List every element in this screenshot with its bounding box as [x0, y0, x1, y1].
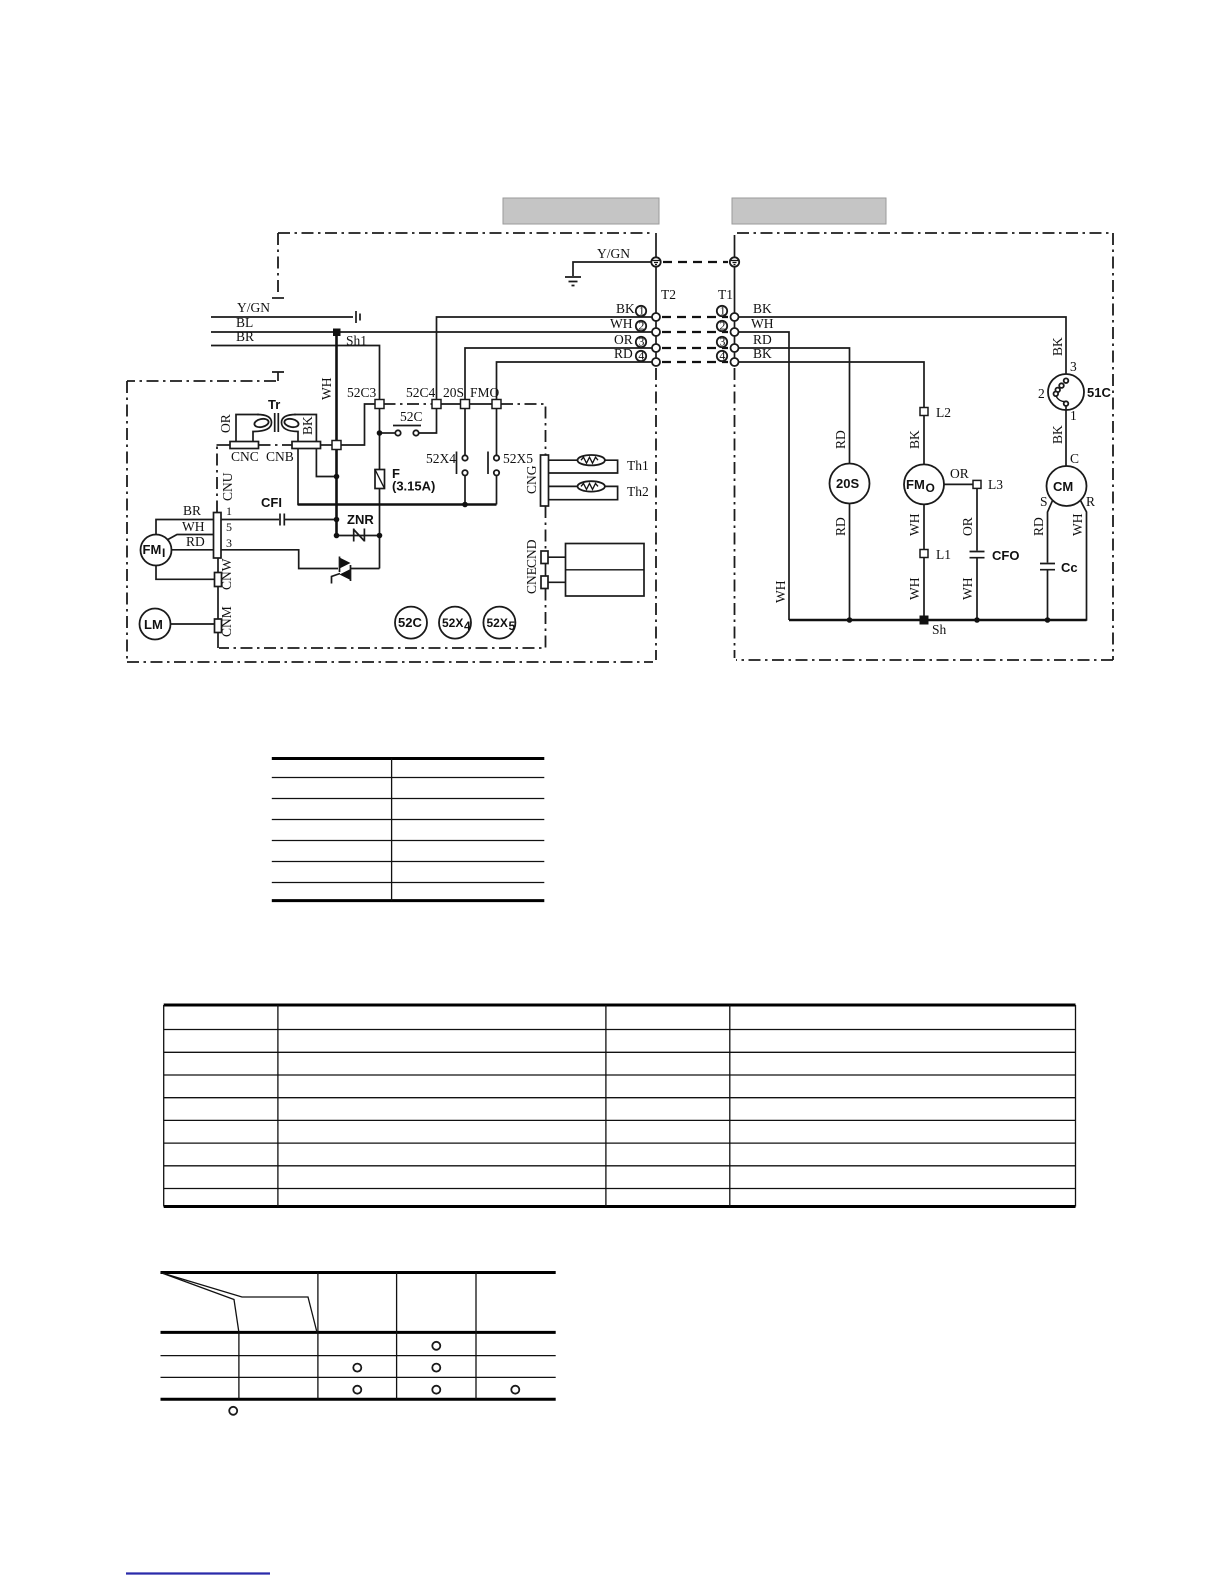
svg-text:RD: RD — [833, 517, 848, 536]
svg-text:WH: WH — [751, 316, 774, 331]
svg-text:C: C — [1070, 451, 1079, 466]
svg-text:4: 4 — [638, 349, 644, 363]
pin L3 — [973, 480, 981, 488]
wire 52C3 pin down through fuse — [379, 409, 381, 569]
svg-text:52X: 52X — [442, 616, 463, 630]
svg-text:52X4: 52X4 — [426, 451, 456, 466]
wire FMo down to L1 — [923, 504, 925, 549]
wire BL feed — [211, 331, 652, 333]
dashed interconnect wires 1-4 — [662, 317, 728, 362]
wire BK no.1 outdoor to 51C — [739, 317, 1066, 374]
svg-text:4: 4 — [719, 349, 725, 363]
pin FMO — [492, 400, 501, 409]
svg-text:ZNR: ZNR — [347, 512, 374, 527]
matrix circle row2 col3 — [432, 1364, 440, 1372]
svg-text:BK: BK — [616, 301, 635, 316]
svg-text:WH: WH — [773, 580, 788, 603]
wire FMo to L3 — [944, 483, 973, 485]
compressor motor CM — [1047, 466, 1087, 506]
svg-text:Tr: Tr — [268, 397, 280, 412]
pin L1 — [920, 550, 928, 558]
wire FMi RD lead — [171, 549, 214, 551]
ground symbol (earth) — [565, 277, 581, 286]
svg-text:2: 2 — [638, 319, 644, 333]
wire CFO to bus — [976, 558, 978, 620]
thermistor Th2 — [549, 481, 618, 500]
svg-text:2: 2 — [719, 319, 725, 333]
svg-text:BK: BK — [907, 430, 922, 449]
label WH 2 (T2 side) — [610, 316, 646, 333]
wire LM to CNM — [171, 623, 215, 625]
svg-text:Sh: Sh — [932, 622, 947, 637]
connector CNC — [230, 442, 259, 449]
terminal block T1 circles — [731, 313, 739, 366]
svg-text:Y/GN: Y/GN — [237, 300, 270, 315]
svg-text:I: I — [162, 546, 165, 560]
footer blue rule — [126, 1572, 270, 1574]
svg-text:LM: LM — [144, 617, 163, 632]
label 1 BK (T1 side) — [717, 301, 772, 318]
wire pin3 RD to triac — [221, 550, 339, 569]
switch contact 52C — [382, 409, 437, 436]
ground terminal on T2 — [651, 257, 660, 266]
svg-text:RD: RD — [1031, 517, 1046, 536]
junction dot CFO bus — [974, 617, 980, 623]
controller box — [566, 544, 645, 597]
pin 20S — [461, 400, 470, 409]
svg-text:Cc: Cc — [1061, 560, 1078, 575]
svg-text:CNW: CNW — [219, 558, 234, 590]
switch 52X5 — [488, 409, 499, 505]
wire FMi to CNW — [156, 566, 215, 580]
svg-text:51C: 51C — [1087, 385, 1111, 400]
wire L1 to Sh — [923, 558, 925, 621]
svg-text:T2: T2 — [661, 287, 676, 302]
wire 51C to CM — [1065, 406, 1067, 467]
wire RD no.4 to FMO pin — [497, 362, 653, 400]
pin L2 — [920, 408, 928, 416]
outdoor unit name plate (redacted gray box) — [732, 198, 886, 224]
svg-text:Th2: Th2 — [627, 484, 649, 499]
svg-text:52C3: 52C3 — [347, 385, 377, 400]
svg-text:CNM: CNM — [219, 606, 234, 637]
wire WH no.2 outdoor to bus — [739, 332, 789, 620]
svg-text:3: 3 — [226, 536, 232, 550]
label 3 RD (T1 side) — [717, 332, 772, 349]
junction dot ZNR right — [377, 533, 383, 539]
motor LM — [140, 609, 171, 640]
wire WH from Sh1 down — [335, 336, 338, 441]
capacitor Cc — [1040, 564, 1055, 570]
svg-text:WH: WH — [182, 519, 205, 534]
junction Sh1 (black square) — [333, 329, 341, 337]
svg-text:CNG: CNG — [524, 465, 539, 494]
matrix circle row2 col2 — [353, 1364, 361, 1372]
svg-text:CNB: CNB — [266, 449, 294, 464]
svg-text:BK: BK — [1050, 337, 1065, 356]
wire Y/GN feed (indoor) — [211, 316, 353, 318]
svg-text:1: 1 — [720, 304, 726, 318]
capacitor CFI — [221, 514, 337, 526]
svg-text:3: 3 — [719, 335, 725, 349]
wire CND to controller — [548, 556, 566, 558]
legend circle below table — [229, 1407, 237, 1415]
connector CND — [541, 551, 548, 564]
svg-text:3: 3 — [638, 335, 644, 349]
wire pcb bus — [298, 503, 497, 506]
svg-text:T1: T1 — [718, 287, 733, 302]
junction dot 52X4 bus — [462, 502, 468, 508]
indoor unit name plate (redacted gray box) — [503, 198, 659, 224]
svg-text:FM: FM — [906, 477, 925, 492]
connector CNM — [215, 619, 222, 633]
svg-text:RD: RD — [186, 534, 205, 549]
svg-text:OR: OR — [218, 414, 233, 433]
svg-text:BL: BL — [236, 315, 253, 330]
svg-text:52C: 52C — [398, 615, 422, 630]
wire CM S-lead to Cc — [1048, 500, 1053, 562]
svg-text:5: 5 — [226, 520, 232, 534]
wire CM R-lead to bus — [1080, 500, 1086, 621]
table 1 (symbol legend, blank) — [272, 759, 545, 901]
svg-text:2: 2 — [1038, 386, 1045, 401]
label BK 1 (T2 side) — [616, 301, 646, 318]
pin square on WH line — [332, 441, 341, 450]
label 2 WH (T1 side) — [717, 316, 774, 333]
matrix circle row3 col4 — [511, 1386, 519, 1394]
svg-text:3: 3 — [1070, 359, 1077, 374]
wire BR feed to 52C3 — [211, 346, 380, 401]
wire 20S to bus — [849, 504, 851, 621]
svg-text:4: 4 — [464, 619, 471, 633]
wire CNB right pin to WH line — [316, 449, 336, 477]
svg-text:OR: OR — [614, 332, 633, 347]
svg-text:CNC: CNC — [231, 449, 259, 464]
svg-text:BK: BK — [300, 416, 315, 435]
wire WH line lower segment — [335, 450, 338, 536]
wire OR no.3 to 20S pin — [465, 348, 652, 400]
indoor unit boundary (dash-dot) — [127, 233, 656, 662]
svg-text:52X: 52X — [487, 616, 508, 630]
overload relay 51C — [1048, 374, 1084, 410]
svg-text:BK: BK — [1050, 425, 1065, 444]
svg-text:RD: RD — [753, 332, 772, 347]
svg-text:WH: WH — [319, 377, 334, 400]
fan motor FMo — [904, 464, 944, 504]
junction dot Cc bus — [1045, 617, 1051, 623]
solenoid 20S — [830, 464, 870, 504]
thermistor Th1 — [549, 455, 618, 473]
transformer Tr — [236, 397, 316, 442]
matrix circle row3 col2 — [353, 1386, 361, 1394]
junction Sh (black square) — [920, 616, 929, 625]
svg-text:WH: WH — [1070, 513, 1085, 536]
wire CNE to controller — [548, 581, 566, 583]
connector CNE — [541, 576, 548, 589]
wire: T1 earth riser — [734, 235, 736, 313]
wire: T2 earth riser — [655, 233, 657, 313]
junction dot ZNR left — [334, 533, 340, 539]
relay coil 52C — [395, 607, 427, 639]
svg-text:WH: WH — [610, 316, 633, 331]
svg-text:20S: 20S — [443, 385, 464, 400]
label OR 3 (T2 side) — [614, 332, 646, 349]
svg-text:OR: OR — [950, 466, 969, 481]
connector CNB — [292, 442, 321, 449]
svg-text:Th1: Th1 — [627, 458, 649, 473]
wire CNB left pin down to bus — [298, 449, 337, 505]
svg-text:1: 1 — [226, 504, 232, 518]
connector CNW — [215, 573, 222, 587]
relay coil 52X5 — [483, 607, 515, 639]
svg-text:CND: CND — [524, 539, 539, 568]
svg-text:BR: BR — [236, 329, 254, 344]
wire L2 to FMo — [923, 416, 925, 465]
matrix circle row1 col3 — [432, 1342, 440, 1350]
svg-text:CFO: CFO — [992, 548, 1019, 563]
terminal block T2 circles — [652, 313, 660, 366]
svg-text:O: O — [926, 481, 935, 495]
svg-text:52C4: 52C4 — [406, 385, 436, 400]
wire outdoor bottom bus — [789, 619, 1087, 622]
svg-text:FMO: FMO — [470, 385, 500, 400]
ground terminal on T1 — [730, 257, 739, 266]
svg-text:OR: OR — [960, 517, 975, 536]
junction dot 52C branch — [377, 430, 383, 436]
svg-text:1: 1 — [639, 304, 645, 318]
svg-text:52C: 52C — [400, 409, 423, 424]
wire L3 down to CFO — [976, 488, 978, 550]
motor FMi — [141, 535, 172, 566]
matrix circle row3 col3 — [432, 1386, 440, 1394]
label RD 4 (T2 side) — [614, 346, 646, 363]
junction dot — [334, 474, 340, 480]
connector CNG — [541, 455, 549, 506]
wire BK no.1 to 52C4 — [437, 317, 653, 400]
svg-text:1: 1 — [1070, 408, 1077, 423]
wire: Y/GN earth link indoor — [573, 262, 651, 276]
svg-text:L3: L3 — [988, 477, 1003, 492]
triac Q1 — [332, 557, 380, 584]
wire BK no.4 outdoor to L2 — [739, 362, 924, 408]
PCB boundary with connectors — [217, 404, 546, 648]
pin 52C4 — [432, 400, 441, 409]
svg-text:WH: WH — [960, 577, 975, 600]
table 2 (parts list, blank) — [164, 1005, 1076, 1207]
chassis tab on Y/GN — [356, 311, 360, 323]
table 3 (operation matrix) — [161, 1273, 556, 1400]
varistor ZNR — [337, 529, 381, 542]
svg-text:CNU: CNU — [220, 472, 235, 501]
capacitor CFO — [970, 552, 985, 558]
wire: dashed earth interconnect — [663, 261, 728, 263]
svg-text:Y/GN: Y/GN — [597, 246, 630, 261]
svg-text:WH: WH — [907, 513, 922, 536]
wire RD no.3 outdoor to 20S — [739, 348, 850, 464]
svg-text:L1: L1 — [936, 547, 951, 562]
pin 52C3 — [375, 400, 384, 409]
svg-text:CNE: CNE — [524, 567, 539, 594]
switch 52X4 — [457, 409, 468, 505]
svg-text:BK: BK — [753, 301, 772, 316]
svg-text:BR: BR — [183, 503, 201, 518]
wire FMi WH lead — [167, 535, 214, 541]
label 4 BK (T1 side) — [717, 346, 772, 363]
svg-text:WH: WH — [907, 577, 922, 600]
relay coil 52X4 — [439, 607, 471, 639]
connector CNU — [214, 513, 222, 559]
svg-text:S: S — [1040, 494, 1048, 509]
wire Cc to bus — [1047, 570, 1049, 620]
svg-text:CM: CM — [1053, 479, 1073, 494]
junction dot CFI-WH — [334, 517, 340, 523]
svg-text:L2: L2 — [936, 405, 951, 420]
svg-text:FM: FM — [143, 542, 162, 557]
junction dot — [847, 617, 853, 623]
svg-text:RD: RD — [833, 430, 848, 449]
wire FMi BR lead — [156, 520, 214, 535]
svg-text:20S: 20S — [836, 476, 859, 491]
svg-text:CFI: CFI — [261, 495, 282, 510]
svg-text:(3.15A): (3.15A) — [392, 479, 435, 494]
svg-text:5: 5 — [509, 619, 516, 633]
outdoor unit boundary (dash-dot) — [735, 233, 1114, 660]
svg-text:R: R — [1086, 494, 1095, 509]
svg-text:52X5: 52X5 — [503, 451, 533, 466]
fuse F (3.15A) — [375, 470, 385, 489]
